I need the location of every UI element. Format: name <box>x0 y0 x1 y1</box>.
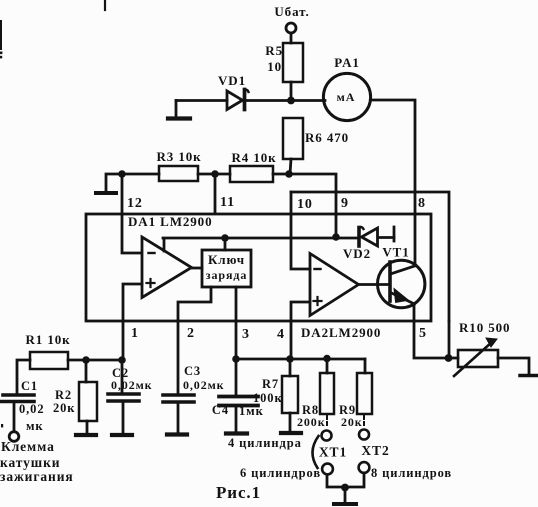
svg-text:катушки: катушки <box>0 455 60 470</box>
wire pin 1 lower <box>122 321 125 360</box>
block key of charge (Ключ заряда) <box>202 250 251 287</box>
label DA1 LM2900 <box>128 214 212 229</box>
op-amp U2 DA2 triangle <box>310 254 359 316</box>
resistor R5 <box>265 43 303 82</box>
resistor R3 <box>125 149 202 181</box>
wire pin 1 to non-inverting input DA1 <box>123 284 142 321</box>
pin 11 label <box>220 195 235 210</box>
svg-text:3: 3 <box>242 327 250 342</box>
pin 4 label <box>277 327 285 342</box>
wire emitter to pin 5 and R10 node <box>414 304 448 358</box>
ground G5 <box>112 433 132 437</box>
wire PA1 to collector (pin 8) <box>371 100 416 265</box>
capacitor C3 <box>163 364 225 432</box>
ground G7 <box>226 431 247 435</box>
pin 5 label <box>419 326 427 341</box>
pin 2 label <box>187 326 195 341</box>
node H junction R1/R2 <box>82 356 90 364</box>
svg-text:11: 11 <box>220 195 235 210</box>
svg-text:2: 2 <box>187 326 195 341</box>
wire C1 to terminal <box>13 403 16 431</box>
resistor R4 <box>230 150 277 182</box>
svg-text:0,02мк: 0,02мк <box>111 378 153 392</box>
diode VD1 <box>218 73 248 110</box>
wire pin 10 to inverting input DA2 <box>291 192 310 269</box>
wire R3 to R4 <box>198 173 230 176</box>
svg-text:Ключ: Ключ <box>208 252 245 267</box>
contact R9 <box>359 430 369 440</box>
pin 10 label <box>297 197 313 212</box>
svg-text:VT1: VT1 <box>382 245 409 260</box>
svg-text:Рис.1: Рис.1 <box>216 483 261 502</box>
svg-text:C1: C1 <box>21 379 38 393</box>
wire pin 4 lower <box>290 321 293 359</box>
svg-text:6 цилиндров: 6 цилиндров <box>240 466 321 480</box>
svg-text:PA1: PA1 <box>334 55 360 70</box>
wire DA2 output to base <box>359 283 389 286</box>
node E junction output/key <box>221 234 229 242</box>
pin 8 label <box>418 196 426 211</box>
wire pin 12 to inverting input DA1 <box>122 174 141 253</box>
IC box DA1 <box>86 214 431 321</box>
svg-text:4 цилиндра: 4 цилиндра <box>228 436 302 450</box>
transistor Q1 VT1 <box>378 260 425 307</box>
ammeter PA1 <box>323 55 370 121</box>
svg-text:зажигания: зажигания <box>0 469 74 484</box>
resistor R10 <box>448 320 510 376</box>
wire R1 to C1 <box>17 360 30 393</box>
pin 3 label <box>242 327 250 342</box>
svg-text:R3 10к: R3 10к <box>156 149 201 164</box>
svg-text:0,02мк: 0,02мк <box>183 378 225 392</box>
svg-text:12: 12 <box>127 196 143 211</box>
svg-text:R10 500: R10 500 <box>459 320 510 335</box>
svg-text:4: 4 <box>277 327 285 342</box>
terminal XT2 <box>359 462 370 473</box>
svg-text:VD2: VD2 <box>343 246 371 261</box>
wire DA1 output bus to VD2 <box>163 238 358 251</box>
svg-text:100к: 100к <box>253 391 283 405</box>
node F junction pin9/VD2 <box>332 233 340 241</box>
svg-text:R5: R5 <box>265 43 283 58</box>
svg-text:заряда: заряда <box>206 268 247 282</box>
op-amp U1 DA1 triangle <box>142 237 192 298</box>
svg-text:ХТ2: ХТ2 <box>361 443 389 458</box>
terminal XT1 <box>322 464 333 475</box>
node J junction pin3/C4 <box>232 355 240 363</box>
wire key top <box>224 238 227 250</box>
node B junction R6/R4/pin9 <box>285 170 293 178</box>
svg-text:5: 5 <box>419 326 427 341</box>
node D junction R3/R4/pin11 <box>211 170 219 178</box>
wire R6 to junction <box>290 159 291 174</box>
svg-text:R6 470: R6 470 <box>305 130 349 145</box>
wire R4 to node B <box>273 173 286 176</box>
svg-text:20к: 20к <box>53 401 75 415</box>
node I junction pin1/C2 <box>118 356 126 364</box>
IC box DA2 <box>291 192 449 321</box>
svg-text:C4: C4 <box>212 403 229 417</box>
contact R8 <box>322 431 332 441</box>
svg-text:VD1: VD1 <box>218 73 246 88</box>
ground G3 <box>520 374 538 378</box>
resistor R7 <box>253 359 298 431</box>
node C junction R3/pin12 <box>118 170 126 178</box>
label 4 cylinders <box>228 436 302 450</box>
resistor R2 <box>53 360 97 433</box>
svg-text:0,02: 0,02 <box>19 402 44 416</box>
wire R5 to junction <box>290 82 293 101</box>
ground G1 <box>168 101 190 119</box>
wire R8 contact dashed <box>326 416 328 428</box>
resistor R6 <box>283 118 349 159</box>
svg-text:R7: R7 <box>262 377 279 391</box>
resistor R8 <box>297 359 334 429</box>
wire Ubat to R5 <box>290 34 293 44</box>
svg-text:10: 10 <box>297 197 313 212</box>
label 8 cylinders <box>371 466 452 480</box>
svg-text:ХТ1: ХТ1 <box>319 445 347 460</box>
pin 1 label <box>131 326 139 341</box>
svg-text:10: 10 <box>267 59 282 74</box>
wire XT1 XT2 to ground <box>327 473 364 487</box>
svg-text:мА: мА <box>337 90 356 104</box>
svg-text:1: 1 <box>131 326 139 341</box>
pin 9 label <box>341 196 349 211</box>
wire pin 8 extension to R10 node <box>448 321 451 358</box>
margin tick top <box>104 0 106 10</box>
wire node B to pin 9 <box>289 174 336 236</box>
label XT1 <box>319 445 347 460</box>
svg-text:R1 10к: R1 10к <box>25 332 70 347</box>
terminal Ubat <box>286 23 296 33</box>
svg-text:8: 8 <box>418 196 426 211</box>
svg-text:1мк: 1мк <box>239 404 264 418</box>
label ignition coil terminal <box>0 439 74 484</box>
svg-text:200к: 200к <box>297 415 326 429</box>
wire R9 contact dashed <box>363 416 365 428</box>
wire R9 top <box>364 359 367 373</box>
wire DA1 output to key <box>191 267 202 270</box>
node L junction R8 <box>323 355 331 363</box>
wire pin 4 to non-inverting input DA2 <box>291 302 310 321</box>
capacitor C1 <box>0 379 44 433</box>
svg-text:C3: C3 <box>184 364 201 378</box>
svg-text:DA1 LM2900: DA1 LM2900 <box>128 214 212 229</box>
capacitor C4 <box>212 359 264 431</box>
svg-text:мк: мк <box>26 419 44 433</box>
resistor R1 <box>25 332 70 369</box>
ground G8 <box>281 431 301 435</box>
resistor R9 <box>339 373 372 429</box>
margin artifact line <box>0 20 3 427</box>
node K junction pin4/R7 <box>286 355 294 363</box>
caption Рис.1 <box>216 483 261 502</box>
ground G2 <box>96 174 122 193</box>
wire bottom bus <box>236 358 365 361</box>
node Ubat label <box>274 4 309 19</box>
node M junction XT ground <box>341 484 349 492</box>
wire ground to VD1 <box>176 99 227 102</box>
node G junction emitter/R10 <box>445 354 453 362</box>
wire pin 2 lower to C3 <box>177 321 180 393</box>
ground G9 <box>334 487 356 504</box>
pin 12 label <box>127 196 143 211</box>
wire key to pin 3 <box>235 287 238 321</box>
terminal ignition coil <box>9 432 19 442</box>
node A junction R5/VD1/R6/PA1 <box>287 97 295 105</box>
diode VD2 <box>343 227 394 261</box>
wire pin 11 <box>214 174 217 213</box>
label DA2LM2900 <box>301 325 381 340</box>
capacitor C2 <box>108 360 153 433</box>
svg-text:8 цилиндров: 8 цилиндров <box>371 466 452 480</box>
svg-text:Uбат.: Uбат. <box>274 4 309 19</box>
svg-text:9: 9 <box>341 196 349 211</box>
svg-text:DA2LM2900: DA2LM2900 <box>301 325 381 340</box>
svg-text:R4 10к: R4 10к <box>231 150 276 165</box>
svg-text:20к: 20к <box>341 415 363 429</box>
jumper arc <box>312 436 318 468</box>
label XT2 <box>361 443 389 458</box>
ground G6 <box>167 432 187 436</box>
wire R10 to ground <box>498 358 529 374</box>
wire R1 to pin1/C2 <box>68 359 122 362</box>
label VT1 <box>382 245 409 260</box>
ground G4 <box>76 433 96 437</box>
wire VD1 to PA1 <box>246 99 325 102</box>
svg-text:Клемма: Клемма <box>1 439 55 454</box>
wire pin 3 lower <box>235 321 238 359</box>
wire key to pin 2 <box>178 287 211 321</box>
svg-text:R2: R2 <box>55 388 72 402</box>
label 6 cylinders <box>240 466 321 480</box>
